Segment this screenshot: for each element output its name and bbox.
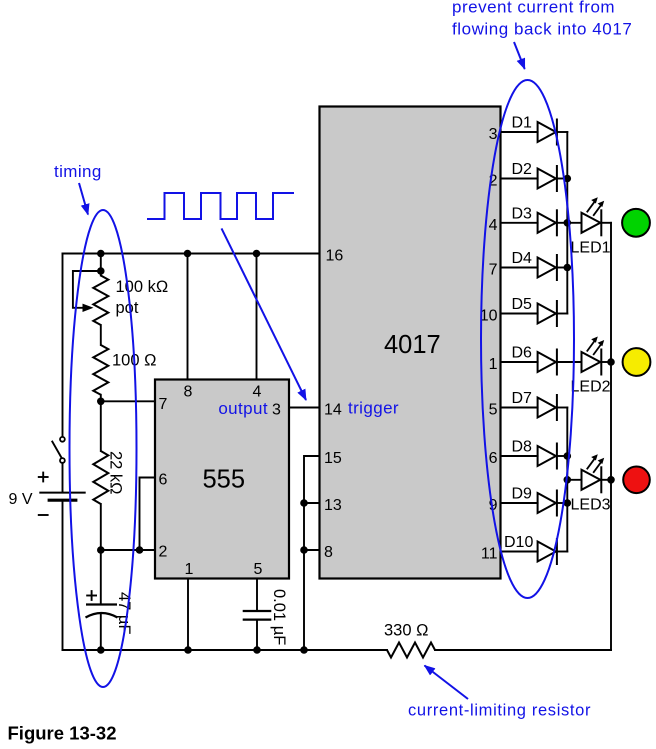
svg-text:6: 6	[159, 472, 168, 489]
svg-text:LED3: LED3	[571, 496, 611, 513]
wire R3 to cap C1	[100, 504, 102, 605]
wire D8 cathode	[557, 455, 567, 457]
svg-text:1: 1	[185, 561, 194, 578]
wire cathode bus D1-D5	[566, 132, 568, 314]
arrow timing	[79, 183, 88, 215]
wire 4017 pin 9 to D9	[501, 502, 538, 504]
wire D5 cathode	[557, 313, 567, 315]
svg-text:D10: D10	[504, 534, 533, 551]
svg-text:D2: D2	[512, 161, 533, 178]
svg-text:330 Ω: 330 Ω	[384, 622, 428, 640]
svg-text:100 kΩ: 100 kΩ	[116, 278, 169, 296]
LED2 symbol	[582, 337, 605, 376]
svg-text:13: 13	[324, 497, 342, 514]
svg-text:flowing back into 4017: flowing back into 4017	[452, 20, 632, 39]
svg-text:16: 16	[326, 248, 344, 265]
wire LED1 to right rail	[601, 222, 611, 224]
node C2 rail junction	[253, 646, 261, 654]
wire 555 pin6	[140, 478, 156, 551]
arrow prevent	[514, 42, 525, 69]
red lamp	[623, 467, 650, 494]
battery B1 9V	[39, 493, 85, 501]
wire R2 to node pin7	[100, 395, 102, 451]
wire 4017 pin 10 to D5	[501, 313, 538, 315]
svg-text:10: 10	[480, 308, 498, 325]
wire 4017 pin 1 to D6	[501, 361, 538, 363]
arrow current-limiting	[425, 666, 469, 700]
wire D6 cathode	[557, 361, 582, 363]
wire switch to battery	[62, 463, 64, 492]
svg-text:trigger: trigger	[348, 399, 399, 418]
resistor R2 100 ohm	[93, 345, 108, 395]
555 pin labels left	[159, 396, 168, 561]
svg-text:8: 8	[184, 384, 193, 401]
svg-text:0.01 µF: 0.01 µF	[270, 589, 288, 645]
svg-text:3: 3	[272, 402, 281, 419]
svg-text:555: 555	[203, 466, 246, 494]
svg-text:15: 15	[324, 450, 342, 467]
wire D10 cathode	[557, 551, 567, 553]
node pot top junction	[97, 267, 105, 275]
wire D9 cathode	[557, 502, 567, 504]
capacitor C1 47uF plates	[86, 605, 118, 618]
wire 4017 pin8	[304, 549, 320, 551]
svg-text:D3: D3	[512, 205, 533, 222]
node bus LED3 tap	[564, 476, 572, 484]
wire 4017 pin15 down to rail	[304, 456, 320, 650]
C1 plus sign	[86, 590, 97, 601]
555 pin labels top	[184, 384, 262, 401]
wire 555 pin2	[101, 549, 155, 551]
wire LED3 to right rail	[601, 479, 611, 481]
green lamp	[622, 209, 650, 237]
svg-text:2: 2	[159, 544, 168, 561]
svg-text:D4: D4	[512, 250, 533, 267]
svg-text:7: 7	[159, 396, 168, 413]
555 pin labels bottom	[185, 561, 263, 578]
node rail-pot junction	[97, 250, 105, 258]
wire bottom rail left segment	[63, 649, 388, 651]
wire rail to pot	[100, 254, 102, 276]
node bus D4	[564, 264, 572, 272]
svg-text:47 µF: 47 µF	[115, 592, 133, 635]
svg-text:D6: D6	[512, 345, 533, 362]
svg-text:LED2: LED2	[571, 379, 611, 396]
resistor R3 22k	[93, 451, 108, 504]
node pin6-pin2 junction	[136, 546, 144, 554]
svg-text:4: 4	[489, 217, 498, 234]
square wave	[147, 193, 294, 219]
wire D1 cathode	[557, 131, 567, 133]
svg-text:14: 14	[324, 402, 342, 419]
battery plus sign	[38, 472, 49, 483]
resistor R4 330 ohm	[387, 643, 435, 658]
wire bus to LED1	[567, 222, 581, 224]
wire left vertical to switch	[62, 254, 64, 437]
svg-text:D7: D7	[512, 390, 533, 407]
svg-text:4017: 4017	[384, 331, 441, 359]
node bus D8	[564, 452, 572, 460]
diode D9	[538, 490, 557, 517]
node pin7 junction	[97, 398, 105, 406]
svg-text:5: 5	[254, 561, 263, 578]
diode D6	[538, 349, 557, 376]
node pin4 rail junction	[253, 250, 261, 258]
svg-text:prevent current from: prevent current from	[452, 0, 615, 17]
pot wiper arrow	[73, 271, 101, 308]
node C1 bottom rail junction	[97, 646, 105, 654]
svg-text:D9: D9	[512, 486, 533, 503]
wire pot to R2	[100, 325, 102, 345]
wire cathode bus D7-D10	[566, 408, 568, 552]
wire C1 to bottom rail	[100, 615, 102, 651]
node bus D9	[564, 499, 572, 507]
node pin2 junction left	[97, 546, 105, 554]
switch S1	[52, 437, 65, 463]
wire bottom rail right segment	[435, 649, 611, 651]
diode D8	[538, 443, 557, 470]
wire D4 cathode	[557, 267, 567, 269]
wire right rail	[610, 223, 612, 650]
svg-text:3: 3	[489, 126, 498, 143]
wire D2 cathode	[557, 178, 567, 180]
arrow squarewave to trigger	[222, 228, 307, 400]
svg-text:current-limiting resistor: current-limiting resistor	[408, 702, 591, 720]
wire 555 pin 8 to rail	[187, 254, 189, 380]
wire D3 cathode	[557, 222, 567, 224]
wire to 555 pin 7	[101, 400, 155, 402]
wire 555 pin3 to 4017 pin14	[289, 407, 320, 409]
diode D2	[538, 165, 557, 192]
diode D5	[538, 300, 557, 327]
wire D7 cathode	[557, 407, 567, 409]
wire C2 to rail	[256, 620, 258, 650]
node pin8 junction	[300, 546, 308, 554]
wire 4017 pin 7 to D4	[501, 267, 538, 269]
wire bus to LED3	[567, 479, 581, 481]
node pin13 junction	[300, 499, 308, 507]
battery minus sign	[38, 514, 49, 516]
svg-text:D8: D8	[512, 439, 533, 456]
svg-text:22 kΩ: 22 kΩ	[107, 451, 125, 495]
wire top rail Vcc	[63, 253, 320, 255]
wire LED2 to right rail	[601, 361, 611, 363]
svg-text:9 V: 9 V	[9, 491, 33, 508]
node LED2 rail junction	[607, 358, 615, 366]
LED3 symbol	[582, 454, 605, 493]
resistor R1 100k pot body	[93, 276, 108, 326]
svg-text:5: 5	[489, 402, 498, 419]
wire 4017 pin 5 to D7	[501, 407, 538, 409]
diode D1	[538, 119, 557, 146]
svg-text:LED1: LED1	[571, 239, 611, 256]
svg-text:output: output	[218, 399, 268, 418]
wire 4017 pin13	[304, 502, 320, 504]
svg-text:1: 1	[489, 356, 498, 373]
node pin8 rail junction	[184, 250, 192, 258]
svg-text:11: 11	[481, 546, 498, 563]
svg-text:7: 7	[489, 262, 498, 279]
svg-text:Figure 13-32: Figure 13-32	[8, 723, 117, 744]
LED1 symbol	[582, 197, 605, 236]
wire 555 pin1 to rail	[187, 579, 189, 651]
node pin1 rail junction	[184, 646, 192, 654]
diode D10	[538, 538, 557, 565]
svg-text:D1: D1	[512, 115, 533, 132]
blue ellipse diode group	[481, 80, 574, 598]
diode D4	[538, 254, 557, 281]
svg-text:D5: D5	[512, 296, 533, 313]
diode D3	[538, 209, 557, 236]
wire 555 pin5 to C2	[256, 579, 258, 612]
svg-text:timing: timing	[54, 162, 102, 181]
wire battery to bottom rail	[62, 502, 64, 650]
blue ellipse timing group	[70, 210, 137, 687]
wire 4017 pin 11 to D10	[501, 551, 538, 553]
svg-text:6: 6	[489, 450, 498, 467]
wire 4017 pin 4 to D3	[501, 222, 538, 224]
svg-text:4: 4	[253, 384, 262, 401]
IC U1 555 body	[155, 380, 289, 579]
IC U2 4017 body	[320, 107, 501, 579]
capacitor C2 0.01uF	[243, 611, 272, 620]
svg-text:pot: pot	[116, 299, 139, 317]
yellow lamp	[623, 348, 651, 376]
wire 4017 pin 3 to D1	[501, 131, 538, 133]
wire 4017 pin 2 to D2	[501, 178, 538, 180]
node pin15 line rail junction	[300, 646, 308, 654]
node bus D2	[564, 175, 572, 183]
node LED3 rail junction	[607, 476, 615, 484]
wire 555 pin 4 to rail	[256, 254, 258, 380]
wire 4017 pin 6 to D8	[501, 455, 538, 457]
node bus D3	[564, 219, 572, 227]
diode D7	[538, 394, 557, 421]
svg-text:8: 8	[324, 544, 333, 561]
